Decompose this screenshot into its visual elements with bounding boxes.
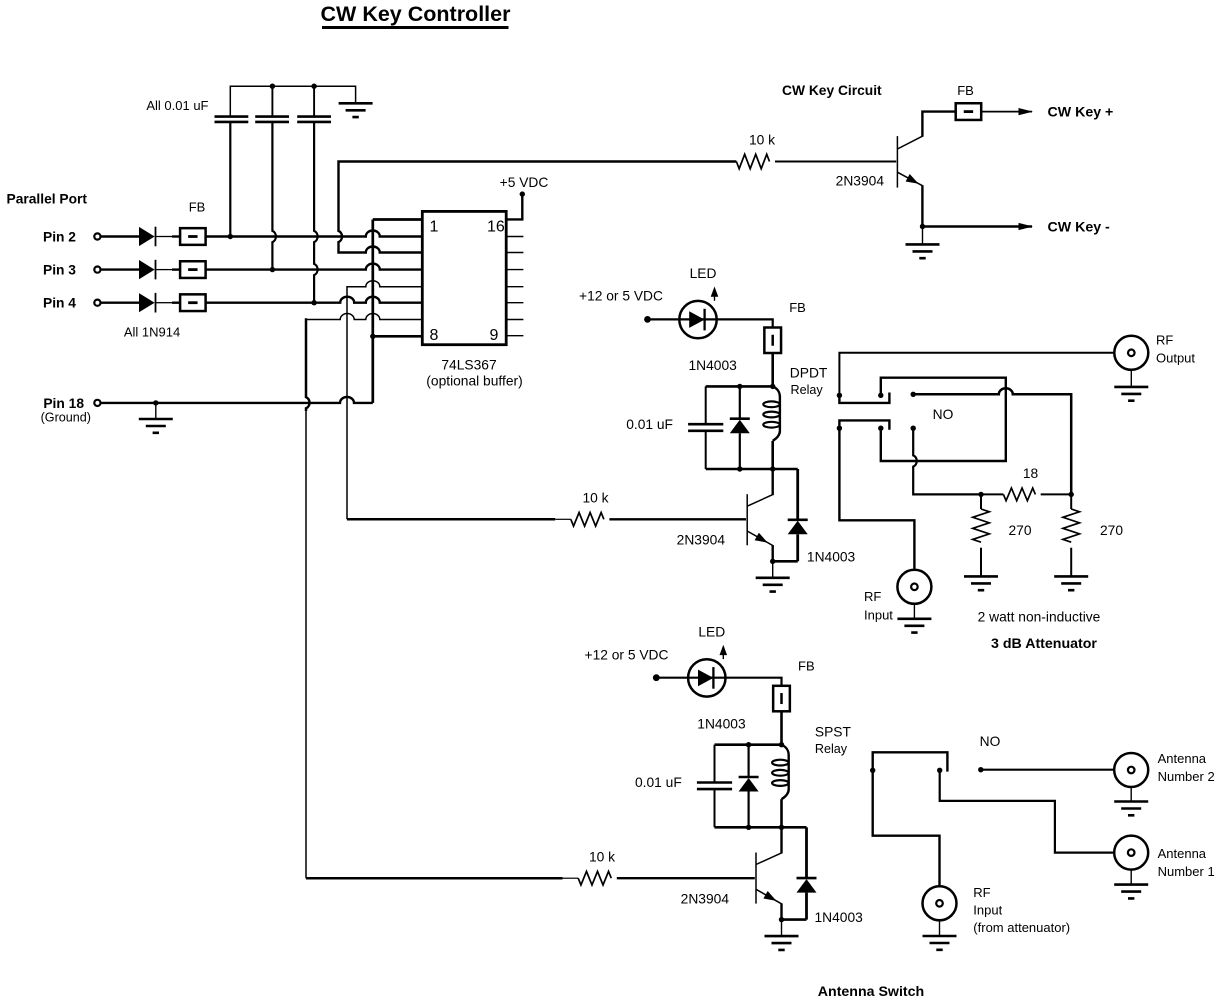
Q1 collector diagonal (897, 136, 922, 149)
svg-text:10 k: 10 k (582, 491, 608, 506)
capacitor 0.01uF (mid) plates (688, 424, 723, 431)
svg-text:FB: FB (789, 300, 806, 315)
svg-text:2N3904: 2N3904 (677, 533, 726, 548)
svg-text:16: 16 (487, 219, 505, 236)
IC U1 74LS367 body (422, 211, 506, 344)
wire 10k to Q1 base (775, 161, 896, 163)
node cap/diode bottom (mid) (737, 466, 742, 471)
diode 1N914 (Pin 4) (139, 293, 155, 312)
resistor 270 left (973, 509, 990, 542)
Q1 emitter arrow (906, 174, 919, 184)
wire 270 right to ground (1070, 548, 1072, 576)
svg-text:1N4003: 1N4003 (807, 550, 856, 565)
svg-text:Relay: Relay (791, 383, 824, 397)
wire Pin3 row to IC pin (hops vert) (206, 264, 423, 270)
svg-text:270: 270 (1100, 523, 1123, 538)
capacitor C2 (255, 117, 289, 122)
node DPDT pole2 second contact (911, 426, 916, 431)
node cap bus / C2 (270, 84, 275, 89)
terminal +12V (mid) (644, 316, 651, 323)
wire diode to FB (Pin 3) (156, 269, 172, 271)
terminal Pin 2 (94, 233, 100, 239)
svg-text:Input: Input (864, 608, 893, 623)
svg-text:+12 or 5 VDC: +12 or 5 VDC (585, 648, 669, 663)
wire Pin 2 to diode (101, 235, 139, 237)
wire Antenna1 shell to ground (1130, 870, 1132, 885)
wire mid 10k row thin part (555, 518, 571, 520)
wire relay top rail (bot) (715, 743, 782, 746)
node DPDT pole2 common (837, 426, 842, 431)
svg-text:Pin 3: Pin 3 (43, 262, 76, 277)
ground Q2 emitter (756, 578, 790, 592)
wire IC pin1 row (373, 218, 423, 221)
ground Pin 18 (139, 419, 173, 433)
wire Pin 3 to diode (101, 268, 139, 270)
svg-text:2N3904: 2N3904 (681, 891, 730, 906)
ferrite bead FB (CW key +) (956, 103, 982, 120)
terminal Pin 4 (94, 300, 100, 306)
node DPDT pole1 NO contact (878, 393, 883, 398)
node cap/diode bottom (bot) (746, 825, 751, 830)
capacitor 0.01uF (bot) plates (697, 783, 732, 790)
resistor 10k (bot) (578, 871, 611, 885)
wire coil to bottom rail (mid) (771, 441, 774, 469)
svg-text:NO: NO (933, 407, 954, 422)
node DPDT pole2 NO contact (878, 426, 883, 431)
ground 270 right (1054, 576, 1088, 590)
svg-text:RF: RF (864, 589, 881, 604)
LED D (bot) circle (688, 659, 725, 696)
node SPST pole common (870, 768, 875, 773)
ferrite bead FB (bot) (773, 686, 790, 712)
connector RF Input (bot) (923, 886, 957, 920)
capacitor C1 (215, 117, 249, 122)
diode 1N4003 (mid) upper wire (739, 386, 741, 418)
wire RF output line (839, 353, 1128, 396)
node Q2 emitter junction (770, 559, 775, 564)
node SPST NO contact (937, 768, 942, 773)
LED arrow (mid) (711, 287, 719, 297)
ground RF Output (1114, 387, 1148, 401)
node Pin2/C1 junction (228, 234, 233, 239)
svg-text:DPDT: DPDT (790, 366, 828, 381)
svg-text:10 k: 10 k (589, 850, 615, 865)
node Pin18 ground junction (153, 400, 158, 405)
terminal +12V (bot) (653, 674, 660, 681)
wire NO to Antenna 2 (981, 769, 1128, 771)
wire Pin18 ground row (hops x347 vert) (101, 397, 373, 403)
wire pole2 contact to attenuator left (bulge over rect) (913, 428, 981, 494)
svg-text:Antenna: Antenna (1158, 846, 1207, 861)
ferrite bead FB (Pin 4) (180, 294, 206, 311)
svg-text:Antenna: Antenna (1158, 751, 1207, 766)
transistor Q3 base bar (755, 853, 757, 904)
LED D (bot) triangle+bar (698, 670, 713, 687)
wire bus to C3 (313, 86, 315, 116)
arrow CW Key + (1019, 108, 1034, 115)
svg-text:0.01 uF: 0.01 uF (635, 775, 682, 790)
svg-text:2 watt non-inductive: 2 watt non-inductive (978, 610, 1101, 625)
diode 1N4003 (bot flyback) lower wire (805, 893, 808, 920)
svg-text:Pin 2: Pin 2 (43, 229, 76, 244)
svg-text:74LS367: 74LS367 (441, 358, 496, 373)
svg-text:Relay: Relay (815, 742, 848, 756)
wire Q2 collector (772, 469, 774, 495)
connector Antenna 1 (1114, 836, 1148, 870)
LED arrow (bot) (720, 645, 728, 655)
svg-text:(Ground): (Ground) (41, 411, 91, 425)
wire RF Output shell to ground (1130, 370, 1132, 387)
diode 1N4003 (mid flyback) lower wire (796, 534, 799, 561)
wire emitter to D2 anode (bot) (782, 918, 807, 921)
wire pin7 long vertical to bottom 10k (305, 410, 307, 878)
wire RF In (bot) shell to ground (939, 920, 941, 935)
diode 1N4003 (bot) (739, 776, 759, 779)
wire cap bus (230, 86, 355, 116)
node Q1 emitter junction (920, 224, 925, 229)
wire Pin4 row to IC pin (hops verts) (206, 297, 423, 303)
wire pole1 contact to attenuator right (hop) (913, 388, 1071, 494)
svg-text:CW Key Controller: CW Key Controller (321, 2, 512, 26)
svg-text:NO: NO (980, 734, 1001, 749)
connector RF Input (atten) (897, 570, 931, 604)
Q2 emitter diagonal (747, 531, 773, 546)
ground RF Input (bot) (923, 936, 957, 950)
Q3 emitter diagonal (756, 889, 782, 904)
wire pin1-pin8 tie vertical (371, 220, 374, 403)
wire relay bottom rail (bot) (715, 826, 807, 829)
Q2 emitter arrow (755, 533, 768, 543)
diode 1N4003 (bot) upper wire (747, 745, 749, 777)
wire IC pin8 row (373, 335, 423, 338)
wire RF In shell to ground (913, 604, 915, 619)
node attenuator left (978, 492, 983, 497)
svg-text:LED: LED (690, 266, 717, 281)
svg-text:CW Key -: CW Key - (1048, 220, 1111, 236)
svg-text:18: 18 (1023, 466, 1039, 481)
svg-text:3 dB Attenuator: 3 dB Attenuator (991, 636, 1097, 652)
svg-text:Parallel Port: Parallel Port (7, 192, 88, 207)
svg-text:2N3904: 2N3904 (836, 174, 885, 189)
wire 270 left to ground (980, 548, 982, 576)
diode 1N4003 (mid flyback) (788, 518, 808, 521)
resistor 10k (mid) (571, 513, 604, 527)
wire Q2 emitter to ground (772, 561, 774, 577)
LED D (mid) triangle+bar (689, 311, 704, 328)
node DPDT pole1 common (837, 393, 842, 398)
svg-text:9: 9 (490, 327, 499, 344)
resistor 18 ohm (1003, 488, 1035, 501)
wire Q1 collector (922, 112, 955, 137)
node D top junction (mid) (737, 384, 742, 389)
svg-text:1N4003: 1N4003 (697, 716, 746, 731)
DPDT pole1 armature bracket (839, 393, 889, 403)
wire FB to relay junction (mid) (771, 353, 774, 387)
wire emitter to D2 anode (mid) (773, 560, 798, 563)
terminal Pin 3 (94, 267, 100, 273)
connector RF Output (1114, 336, 1148, 370)
svg-text:FB: FB (798, 658, 815, 673)
wire to ground symbol (155, 403, 157, 419)
ground Antenna 1 (1114, 885, 1148, 899)
svg-text:FB: FB (957, 83, 974, 98)
wire emitter to CW Key - arrow (923, 225, 1033, 227)
svg-text:(optional buffer): (optional buffer) (426, 374, 522, 389)
diode 1N4003 (bot) lower wire (747, 792, 749, 828)
wire Q2 emitter (772, 545, 774, 561)
capacitor C3 (297, 117, 331, 122)
svg-text:SPST: SPST (815, 724, 852, 739)
diode 1N4003 (mid flyback) upper wire (796, 469, 799, 520)
node relay bottom junction (mid) (770, 466, 775, 471)
wire Q3 emitter to ground (781, 920, 783, 936)
ferrite bead FB (mid) (764, 328, 781, 354)
svg-text:Pin 18: Pin 18 (43, 396, 84, 411)
wire IC output pin3 to CW key line (hop + bulge) (339, 162, 737, 253)
wire 10k to Q2 base (609, 518, 746, 520)
svg-text:CW Key Circuit: CW Key Circuit (782, 83, 882, 98)
svg-text:Number 2: Number 2 (1158, 769, 1215, 784)
capacitor 0.01uF (bot) left wire (714, 745, 716, 783)
ground Q1 emitter (906, 244, 940, 258)
wire FB to relay junction (bot) (780, 711, 783, 745)
node Pin3/C2 junction (270, 267, 275, 272)
ferrite bead FB (Pin 2) (180, 228, 206, 245)
node attenuator right (1069, 492, 1074, 497)
node DPDT pole1 second contact (911, 392, 916, 397)
wire pole2 common to RF input (839, 428, 914, 570)
wire atten right to 270 (1070, 494, 1072, 509)
wire relay bottom rail (mid) (706, 468, 798, 471)
svg-text:LED: LED (698, 624, 725, 639)
title underline (322, 26, 509, 29)
ground RF Input (atten) (897, 619, 931, 633)
wire relay top rail (mid) (706, 385, 773, 388)
wire Q1 emitter to ground (922, 227, 924, 244)
svg-text:Input: Input (973, 903, 1002, 918)
svg-text:All 1N914: All 1N914 (124, 325, 180, 340)
wire bottom 10k row thin part (563, 877, 579, 879)
wire IC output pin5 to mid 10k (hop at x372.8) (347, 281, 422, 520)
DPDT pole2 armature bracket (839, 420, 889, 429)
wire IC output pin7 row (hops x347+x372.8) (306, 314, 422, 320)
svg-text:All 0.01 uF: All 0.01 uF (146, 98, 208, 113)
transistor Q2 base bar (746, 494, 748, 545)
wire Q1 emitter (921, 185, 923, 226)
wire diode to FB (Pin 4) (156, 302, 172, 304)
wire C2 to Pin3 row (hops Pin2 row) (272, 122, 276, 270)
node pin8 junction (370, 334, 375, 339)
relay coil (mid) (773, 386, 780, 441)
node +5 VDC (520, 191, 525, 196)
node relay top junction (bot) (779, 742, 784, 747)
node Q3 emitter junction (779, 917, 784, 922)
wire Q3 collector (780, 827, 782, 853)
svg-text:(from attenuator): (from attenuator) (973, 920, 1070, 935)
diode 1N4003 (bot flyback) (797, 877, 817, 880)
wire +12V to LED to FB corner (bot) (656, 678, 781, 686)
wire to 18 resistor left (981, 493, 1003, 495)
Q3 collector diagonal (756, 853, 782, 865)
svg-text:0.01 uF: 0.01 uF (626, 417, 673, 432)
diode 1N4003 (mid) lower wire (739, 433, 741, 469)
arrow CW Key - (1019, 223, 1034, 230)
node Pin4/C3 junction (311, 300, 316, 305)
svg-text:Pin 4: Pin 4 (43, 296, 76, 311)
transistor Q1 base bar (896, 136, 898, 188)
LED D (mid) circle (679, 301, 716, 338)
terminal Pin 18 (94, 400, 100, 406)
wire atten left to 270 (980, 494, 982, 509)
connector Antenna 2 (1114, 753, 1148, 787)
svg-text:1N4003: 1N4003 (689, 358, 738, 373)
wire C1 to Pin2 row (229, 122, 231, 237)
wire Q3 emitter (780, 903, 782, 919)
svg-text:1N4003: 1N4003 (815, 910, 864, 925)
Q1 emitter diagonal (897, 172, 922, 186)
wire NO tie rectangle (881, 378, 1006, 461)
Q2 collector diagonal (747, 495, 773, 507)
svg-text:270: 270 (1009, 523, 1032, 538)
node D top junction (bot) (746, 742, 751, 747)
node antenna2 feed (978, 767, 983, 772)
wire coil to bottom rail (bot) (780, 799, 783, 827)
ground Q3 emitter (765, 936, 799, 950)
node relay top junction (mid) (770, 384, 775, 389)
ground Antenna 2 (1114, 802, 1148, 816)
wire Antenna2 shell to ground (1130, 787, 1132, 801)
SPST armature bracket (873, 752, 948, 771)
capacitor 0.01uF (mid) left wire (705, 386, 707, 424)
ground 270 left (964, 576, 998, 590)
wire mid 10k row thick part (347, 518, 555, 521)
ground cap bus (339, 103, 373, 117)
wire to 18 resistor right (1041, 493, 1072, 495)
capacitor 0.01uF (mid) lower wire (705, 431, 707, 469)
svg-text:FB: FB (189, 200, 206, 215)
ferrite bead FB (Pin 3) (180, 261, 206, 278)
wire +5VDC to IC pin16 (506, 194, 522, 219)
svg-text:Output: Output (1156, 351, 1195, 366)
diode 1N4003 (mid) (730, 417, 750, 420)
diode 1N914 (Pin 3) (139, 260, 155, 279)
capacitor 0.01uF (bot) lower wire (714, 789, 716, 827)
svg-text:10 k: 10 k (749, 133, 775, 148)
wire diode to FB (Pin 2) (156, 236, 172, 238)
svg-text:RF: RF (973, 885, 990, 900)
relay coil (bot) (782, 745, 789, 800)
Q3 emitter arrow (763, 891, 776, 901)
node relay bottom junction (bot) (779, 825, 784, 830)
wire +12V to LED to FB corner (mid) (648, 319, 773, 327)
wire C3 to Pin4 row (hops Pin2+Pin3 rows) (314, 122, 318, 303)
svg-text:+12 or 5 VDC: +12 or 5 VDC (579, 288, 663, 303)
wire bus to C2 (271, 86, 273, 116)
svg-text:RF: RF (1156, 333, 1173, 348)
wire 10k to Q3 base (617, 877, 755, 879)
IC right side pin stubs (506, 237, 523, 336)
svg-text:+5 VDC: +5 VDC (500, 175, 549, 190)
svg-text:8: 8 (430, 327, 439, 344)
svg-text:Antenna Switch: Antenna Switch (818, 984, 924, 1000)
wire SPST NO to Antenna 1 (940, 770, 1128, 852)
svg-text:Number 1: Number 1 (1158, 864, 1215, 879)
svg-text:1: 1 (430, 219, 439, 236)
wire pin7 vertical upper (bulge over gnd row) (306, 318, 310, 411)
wire SPST common to RF input (bot) (873, 770, 940, 886)
resistor 10k (CW) (736, 154, 769, 168)
wire bottom 10k row thick part (306, 877, 563, 880)
svg-text:CW Key +: CW Key + (1048, 105, 1114, 121)
wire Pin2 row to IC pin (hops vert) (206, 231, 423, 237)
wire FB to CW Key + arrow (982, 111, 1033, 113)
resistor 270 right (1063, 509, 1080, 542)
wire Pin 4 to diode (101, 302, 139, 304)
diode 1N4003 (bot flyback) upper wire (805, 827, 808, 878)
diode 1N914 (Pin 2) (139, 227, 155, 246)
node cap bus / C3 (311, 84, 316, 89)
